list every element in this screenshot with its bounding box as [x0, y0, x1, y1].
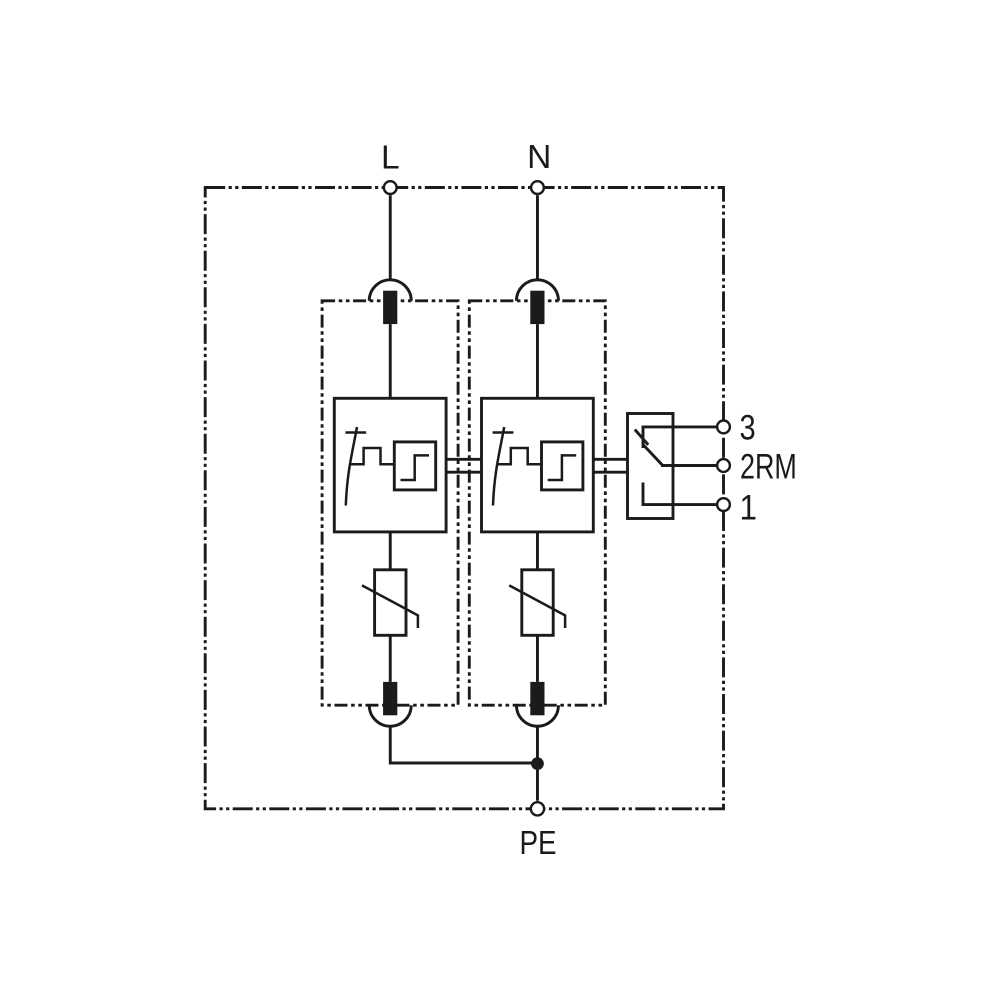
varistor RV2 body: [522, 570, 553, 636]
NC contact tick: [635, 430, 648, 445]
PE collection wire from module 1: [390, 726, 537, 763]
terminal 1: [717, 498, 730, 511]
trigger unit inner box: [394, 442, 435, 490]
PE wire from module 2 to PE terminal: [536, 726, 539, 801]
wire varistor to bottom pin: [536, 635, 539, 682]
plug pin (top, filled): [530, 291, 544, 324]
svg-text:3: 3: [740, 408, 756, 447]
terminal 2RM: [717, 459, 730, 472]
svg-text:L: L: [381, 140, 400, 177]
svg-text:1: 1: [740, 489, 758, 528]
spark gap unit box U2: [482, 398, 594, 532]
svg-text:N: N: [527, 139, 551, 176]
spark gap unit box U1: [334, 398, 446, 532]
terminal L: [384, 181, 397, 194]
movable contact arm: [643, 445, 663, 466]
NO fixed contact and wire to terminal 1: [643, 483, 717, 505]
svg-text:2RM: 2RM: [740, 447, 797, 486]
wire N terminal to plug contact: [536, 195, 539, 280]
wire L terminal to plug contact: [389, 195, 392, 280]
outer enclosure dash-dot border: [205, 188, 723, 809]
trigger step symbol: [548, 455, 577, 480]
varistor diagonal stroke: [509, 585, 565, 628]
protection module 2 (N path): [469, 195, 605, 726]
varistor RV1 body: [375, 570, 406, 636]
wire pin to spark gap unit: [389, 324, 392, 398]
spark gap electrode crossbar: [493, 431, 514, 434]
wire spark gap to varistor: [536, 532, 539, 570]
module 2 dash-dot box: [469, 301, 605, 705]
junction dot: [531, 757, 544, 770]
plug-in contact arc (top): [516, 280, 558, 301]
protection module 1 (L path): [322, 195, 458, 726]
varistor diagonal stroke: [362, 585, 418, 628]
surge current waveform step: [497, 448, 542, 464]
module 1 dash-dot box: [322, 301, 458, 705]
plug pin (bottom, filled): [383, 682, 397, 715]
remote signalling contact box K1: [628, 414, 674, 519]
plug-in contact arc (top): [369, 280, 411, 301]
plug pin (top, filled): [383, 291, 397, 324]
spark gap electrode crossbar: [345, 431, 366, 434]
surge current waveform step: [350, 448, 395, 464]
wire pin to spark gap unit: [536, 324, 539, 398]
spark gap electrode (curved line): [493, 427, 504, 506]
mechanical coupling module2 - remote contact (double line): [593, 458, 627, 461]
terminal PE: [531, 802, 544, 815]
wire common to terminal 2RM: [661, 464, 717, 467]
trigger step symbol: [401, 455, 430, 480]
spark gap electrode (curved line): [346, 427, 357, 506]
mechanical coupling module1 - module2 (double line): [446, 458, 481, 461]
terminal N: [531, 181, 544, 194]
NC fixed contact and wire to terminal 3: [643, 427, 717, 448]
plug-in contact arc (bottom): [369, 705, 411, 726]
svg-text:PE: PE: [519, 824, 556, 862]
wire spark gap to varistor: [389, 532, 392, 570]
plug-in contact arc (bottom): [516, 705, 558, 726]
terminal 3: [717, 421, 730, 434]
wire varistor to bottom pin: [389, 635, 392, 682]
plug pin (bottom, filled): [530, 682, 544, 715]
trigger unit inner box: [542, 442, 583, 490]
